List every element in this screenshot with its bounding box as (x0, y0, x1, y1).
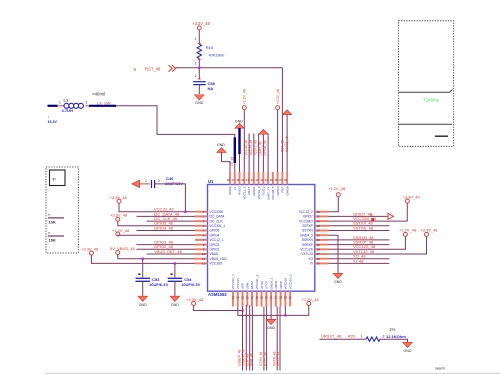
power symbol +3.3V_48 (row12) (81, 247, 99, 256)
net label URXP_48 (vertical) (276, 352, 280, 366)
svg-text:>40mil: >40mil (92, 92, 105, 97)
svg-text:17: 17 (250, 296, 254, 300)
svg-text:10: 10 (202, 252, 206, 256)
label R20 (348, 334, 356, 339)
net label URSXT_48 (321, 334, 342, 339)
svg-text:13: 13 (231, 296, 235, 300)
svg-text:VCC33U_1: VCC33U_1 (231, 274, 235, 290)
U1 left pin names (210, 210, 228, 266)
net label GND_48 (pin43) (249, 140, 253, 156)
wire VCC12S row (329, 236, 406, 249)
net label RST_48 (vertical) (281, 140, 285, 152)
pin number 2 (R20) (383, 335, 385, 339)
wire pin43 stub up (253, 134, 255, 173)
net label GPIO2_48 (154, 244, 174, 249)
svg-text:VBUS_LDO: VBUS_LDO (210, 257, 228, 261)
svg-text:GPIO8: GPIO8 (285, 186, 289, 196)
svg-text:+3.3V_48: +3.3V_48 (81, 247, 99, 252)
wire I2C_DATA row2 (137, 215, 196, 217)
off-page connector RST_48 (169, 65, 176, 71)
waveform trace line 1 (399, 89, 453, 92)
svg-text:SSTXN_48: SSTXN_48 (353, 225, 374, 230)
off-page connector (C40 left) (132, 180, 140, 187)
svg-text:31: 31 (317, 233, 321, 237)
pin number 1 (R20) (361, 335, 363, 339)
svg-text:VXTL33: VXTL33 (301, 252, 313, 256)
svg-text:40: 40 (265, 178, 269, 182)
svg-text:GPIO4: GPIO4 (210, 233, 220, 237)
wire C54 bottom (174, 281, 176, 296)
svg-text:WRST: WRST (250, 280, 254, 289)
net label VCC12_48 (pin44) (244, 140, 248, 156)
power symbol 5V_VBUS_48 (row11) (110, 246, 135, 255)
U1 left pin stubs (195, 212, 208, 264)
svg-text:GND: GND (171, 303, 179, 307)
label C53 (152, 277, 160, 282)
net label VCC33_48 (154, 207, 174, 212)
svg-text:32: 32 (317, 229, 321, 233)
pin number 1 (R10) (195, 62, 197, 66)
svg-text:ASM1053: ASM1053 (208, 292, 227, 297)
net label I2C_CLK_48 (154, 216, 178, 221)
net label GPIO4_48 (154, 225, 174, 230)
net label XI_48 (353, 258, 364, 263)
power symbol +1.2V_48 (top) (242, 89, 246, 110)
wire VCC33IO row (329, 220, 408, 222)
svg-text:VCC33_48: VCC33_48 (285, 136, 289, 152)
net label TEST2_48 (pin42) (254, 140, 258, 155)
svg-text:VCC33IO: VCC33IO (299, 219, 313, 223)
svg-text:LX_48: LX_48 (230, 157, 234, 166)
svg-text:URXN: URXN (274, 281, 278, 290)
net label VCC33I0_48 (353, 216, 377, 221)
U1 top pin numbers 48-37 (227, 178, 288, 182)
resistor stub 10K (upper) (48, 215, 64, 225)
U1 bottom pin stubs (233, 291, 290, 306)
net label RST_48 (145, 67, 161, 72)
net label URXN_48 (vertical) (272, 351, 276, 366)
svg-text:i: i (48, 116, 49, 120)
svg-text:25: 25 (289, 296, 293, 300)
ground symbol (top left of U1) (217, 143, 226, 152)
U1 right pin stubs (315, 212, 329, 264)
svg-text:XO: XO (308, 257, 313, 261)
wire VCC33O row12 (91, 255, 195, 264)
U1 bottom pin numbers 13-25 (231, 296, 292, 300)
wire VCC12 row6 (118, 234, 195, 237)
svg-text:GND: GND (217, 143, 225, 147)
U1 top pin names (228, 186, 289, 200)
net label GPIO5_48 (154, 221, 174, 226)
svg-text:12: 12 (202, 262, 206, 266)
svg-text:14: 14 (236, 296, 240, 300)
svg-text:GPIO3: GPIO3 (210, 243, 220, 247)
wire UTXN vertical (263, 307, 265, 371)
svg-text:26: 26 (317, 257, 321, 261)
IC U1 part number ASM1053 (208, 292, 227, 297)
power symbol +3.3V_48 (right top) (403, 195, 421, 204)
net label SSRXN_48 (353, 235, 374, 240)
svg-text:GND: GND (195, 101, 203, 105)
ground C53 (138, 296, 147, 307)
svg-text:10K: 10K (49, 238, 56, 243)
svg-text:UDM_48: UDM_48 (249, 353, 253, 366)
capacitor C54 (168, 278, 183, 281)
svg-text:30: 30 (317, 238, 321, 242)
svg-text:XI_48: XI_48 (353, 258, 364, 263)
net label I2C_DATA_48 (154, 211, 180, 216)
svg-text:35: 35 (317, 215, 321, 219)
wire +3.3V to pin38 (277, 109, 279, 172)
resistor stub 10K (lower) (48, 233, 64, 243)
inductor L1 (64, 103, 83, 108)
svg-text:8: 8 (134, 67, 137, 72)
svg-text:1: 1 (145, 179, 147, 183)
svg-text:TEST2_48: TEST2_48 (254, 140, 258, 155)
wire GPIO4 row5 (137, 230, 196, 232)
svg-text:28: 28 (317, 248, 321, 252)
wire R10 top (198, 30, 201, 45)
svg-text:URXP_48: URXP_48 (276, 352, 280, 366)
svg-text:VCC12_3: VCC12_3 (242, 186, 246, 199)
svg-text:23: 23 (279, 296, 283, 300)
svg-text:16: 16 (246, 296, 250, 300)
U1 left pin numbers 1-12 (202, 210, 206, 266)
IC U1 body (208, 185, 315, 292)
svg-text:GPIO4_48: GPIO4_48 (154, 225, 174, 230)
wire VXTL33 row (329, 236, 427, 254)
svg-text:41: 41 (260, 178, 264, 182)
wire rail2 (+1.2V) (238, 305, 309, 315)
svg-text:VCC33_48: VCC33_48 (249, 140, 253, 156)
wire rail1 (+3.3V) (194, 305, 243, 310)
svg-text:PVDD: PVDD (238, 186, 242, 195)
wire +1.2V to pin45 (243, 109, 245, 172)
waveform trace line 3 (435, 135, 448, 137)
svg-text:SSTXP: SSTXP (302, 224, 312, 228)
svg-text:VCC33O: VCC33O (210, 262, 223, 266)
svg-text:1: 1 (59, 101, 61, 105)
capacitor C53 polarity mark (138, 273, 140, 275)
power symbol +3.3V_48 (right mid) (420, 228, 438, 237)
svg-text:GPIO6_48: GPIO6_48 (263, 140, 267, 155)
svg-text:2: 2 (86, 101, 88, 105)
svg-text:GND: GND (235, 119, 243, 123)
wire SSRXN row (329, 239, 390, 241)
net label XO_48 (353, 254, 366, 259)
svg-text:36: 36 (317, 210, 321, 214)
net label SSTXP_48 (353, 221, 374, 226)
label L1 (64, 98, 69, 103)
svg-text:GPIO1: GPIO1 (252, 186, 256, 196)
svg-text:VCC12S: VCC12S (300, 248, 312, 252)
wire GND drop (right) (329, 235, 339, 273)
wire C40 pin1 (140, 183, 150, 185)
svg-text:UART_TX: UART_TX (266, 187, 270, 201)
svg-text:R10: R10 (206, 45, 214, 50)
pin number 1 (L1) (59, 101, 61, 105)
net label UTXN_48 (vertical) (259, 352, 263, 366)
svg-text:4.7UH: 4.7UH (62, 108, 73, 113)
svg-text:LX_SW: LX_SW (97, 100, 111, 105)
svg-text:GND: GND (267, 326, 275, 330)
node junction rail1 (241, 309, 244, 312)
wire pin40 stub up (267, 134, 269, 173)
thick GND net segment (238, 128, 240, 154)
svg-text:VCC33V: VCC33V (236, 278, 240, 290)
wire C58 top (198, 68, 201, 80)
svg-text:VCC33A: VCC33A (284, 278, 288, 290)
wire pin44 stub up (248, 134, 250, 173)
pin number 2 (R10) (195, 37, 197, 41)
ground (right of U1) (333, 273, 342, 284)
svg-text:+1.2V_48: +1.2V_48 (328, 186, 346, 191)
U1 bottom pin names (231, 274, 292, 290)
svg-text:47KOhm: 47KOhm (209, 53, 225, 58)
capacitor C58 (193, 82, 206, 85)
wire +3.3V drop (right) (406, 203, 408, 221)
wire pin37 stub up (286, 114, 288, 172)
label C54 (184, 277, 192, 282)
svg-text:25: 25 (317, 262, 321, 266)
svg-text:GNDA_3: GNDA_3 (300, 233, 313, 237)
svg-text:11: 11 (202, 257, 205, 261)
svg-text:1: 1 (195, 62, 197, 66)
svg-text:12.1KOhm: 12.1KOhm (386, 334, 406, 339)
svg-text:VCC12_48: VCC12_48 (244, 140, 248, 156)
wire RST_48 horizontal (176, 67, 283, 69)
svg-text:XI: XI (310, 262, 313, 266)
U1 right pin numbers 36-25 (317, 210, 321, 266)
wire GPIO5 row4 (118, 221, 195, 226)
wire GPIO2 row9 (137, 248, 196, 250)
label C58 (208, 81, 216, 86)
power symbol +3.3V_48 (R10 top) (192, 21, 210, 30)
wire pin41 stub up (262, 134, 264, 172)
wire SSTXN row (329, 230, 390, 232)
svg-text:18: 18 (255, 296, 259, 300)
node junction C54/row12 (174, 262, 177, 265)
svg-text:48: 48 (227, 178, 231, 182)
pin number 2 (C40) (158, 179, 160, 183)
wire pin42 stub up (258, 134, 260, 173)
value 4.7UH (62, 108, 73, 113)
svg-text:+3.3V_48: +3.3V_48 (186, 297, 204, 302)
capacitor C40 (152, 180, 155, 188)
svg-text:19: 19 (260, 296, 264, 300)
svg-text:38: 38 (274, 178, 278, 182)
wire GND to pin48 (222, 152, 231, 172)
svg-text:GPIO7: GPIO7 (303, 215, 313, 219)
svg-text:10UF/6.3V: 10UF/6.3V (181, 282, 200, 287)
svg-text:NA: NA (208, 86, 214, 91)
svg-text:R20: R20 (348, 334, 356, 339)
svg-text:UDM: UDM (245, 282, 249, 289)
svg-text:REXT: REXT (247, 186, 251, 194)
svg-text:+1.2V_48: +1.2V_48 (399, 228, 417, 233)
net label SSTXN_48 (353, 225, 374, 230)
wire R10 bottom (198, 59, 201, 67)
node junction C40/row1 (184, 210, 187, 213)
svg-text:27: 27 (317, 252, 321, 256)
power symbol +3.3V_48 (row1) (110, 195, 128, 203)
wire SSRXP row (329, 244, 390, 246)
value 10UF/6.3V (C53) (149, 282, 168, 287)
svg-text:46: 46 (236, 178, 240, 182)
svg-text:5V_VBUS_48: 5V_VBUS_48 (110, 246, 135, 251)
svg-text:UTXN: UTXN (260, 281, 264, 289)
svg-text:USP: USP (241, 283, 245, 289)
op U1 designator (208, 179, 214, 184)
svg-text:47: 47 (231, 178, 235, 182)
net label VCC12S_48 (353, 244, 376, 249)
svg-text:UART_48: UART_48 (259, 141, 263, 155)
resistor R20 (366, 337, 380, 341)
ground R20 (403, 342, 412, 353)
svg-text:seed h: seed h (435, 367, 445, 371)
net label UTXP_48 (vertical) (263, 352, 267, 366)
wire VBUS_DET row10 (147, 253, 195, 255)
svg-text:VCC1B_5: VCC1B_5 (271, 186, 275, 200)
svg-text:+3.3V_48: +3.3V_48 (110, 212, 128, 217)
svg-text:GNDA_1: GNDA_1 (269, 277, 273, 289)
svg-text:1: 1 (361, 335, 363, 339)
wire C58 bottom (198, 85, 200, 94)
net label USBDP_48 (vertical) (238, 349, 242, 366)
wire URXN vertical (276, 307, 278, 371)
svg-text:24: 24 (284, 296, 288, 300)
value 47KOhm (209, 53, 225, 58)
svg-text:VCC12_2: VCC12_2 (299, 210, 313, 214)
svg-text:33: 33 (317, 224, 321, 228)
U1 top pin stubs (230, 172, 287, 185)
svg-text:TEST2: TEST2 (262, 186, 266, 196)
thick LX net segment (234, 137, 236, 163)
wire pin36 to +1.2V (329, 196, 339, 211)
svg-text:VCC33L_1: VCC33L_1 (210, 224, 226, 228)
svg-text:RST_48: RST_48 (145, 67, 161, 72)
svg-text:36: 36 (284, 178, 288, 182)
power symbol +3.3V_48 (bottom left) (186, 297, 204, 305)
svg-text:2: 2 (158, 179, 160, 183)
wire UDP vertical (249, 305, 251, 371)
pin number 1 (C40) (145, 179, 147, 183)
value NA (C58) (208, 86, 214, 91)
net label SSRXP_48 (353, 240, 374, 245)
svg-text:SSRXN: SSRXN (302, 238, 314, 242)
svg-text:+3.3V_48: +3.3V_48 (403, 195, 421, 200)
wire RST_48 vertical to U1 pin (281, 68, 283, 172)
svg-text:15: 15 (241, 296, 245, 300)
svg-text:2: 2 (195, 37, 197, 41)
note >40mil (92, 92, 105, 97)
waveform trace line 2 (399, 123, 452, 125)
wire C53 bottom (142, 281, 144, 296)
wire I2C_CLK row3 (147, 220, 195, 222)
power symbol +3.3V_48 (top) (276, 89, 280, 110)
ground C54 (170, 296, 179, 307)
dangling-net marker (VCC33IO row) (370, 214, 374, 221)
capacitor C53 (136, 278, 151, 281)
svg-text:I2C_CLK: I2C_CLK (210, 219, 224, 223)
svg-text:GPIO5: GPIO5 (210, 229, 220, 233)
svg-text:2: 2 (383, 335, 385, 339)
wire GPIO7 row (329, 215, 389, 217)
pin number 2 (C58) (195, 74, 197, 78)
net label UART_48 (pin41) (259, 141, 263, 155)
net label LX_SW (97, 100, 111, 105)
svg-text:10UF/6.3V: 10UF/6.3V (149, 282, 168, 287)
svg-text:T1#0ms: T1#0ms (423, 98, 440, 103)
wire UDM vertical (251, 307, 253, 371)
wire thick GND to pin46 (239, 154, 241, 172)
net label LX_48 (vertical) (230, 157, 234, 166)
node junction rail2 (284, 314, 287, 317)
svg-text:21: 21 (269, 296, 273, 300)
sheet bottom border (45, 372, 500, 374)
svg-text:I2C_DATA: I2C_DATA (210, 215, 226, 219)
svg-text:LX: LX (233, 187, 237, 191)
svg-text:+3.3V_48: +3.3V_48 (192, 21, 210, 26)
svg-text:34: 34 (317, 219, 321, 223)
value 12.1KOhm (386, 334, 406, 339)
thick net segment left of L1 (48, 105, 58, 107)
svg-text:29: 29 (317, 243, 321, 247)
wire C40 to VCC33 row (155, 184, 186, 212)
wire VBUS row11 (118, 254, 195, 258)
net label UDM_48 (vertical) (249, 353, 253, 366)
wire L1 pin2 (85, 105, 90, 107)
svg-text:GND2: GND2 (228, 186, 232, 195)
resistor R10 (197, 44, 201, 58)
value 10UF/6.3V (C54) (181, 282, 200, 287)
waveform label T1#0ms (423, 98, 440, 103)
svg-text:45: 45 (241, 178, 245, 182)
wire USB DM vertical (245, 305, 247, 371)
power symbol +1.2V_48 (bottom right) (302, 297, 320, 305)
svg-text:20: 20 (265, 296, 269, 300)
net label GPIO7_48 (353, 211, 373, 216)
svg-text:10K: 10K (49, 219, 56, 224)
net label USBDM_48 (vertical) (242, 349, 246, 366)
svg-text:RST_48: RST_48 (281, 140, 285, 152)
svg-text:UTXP_48: UTXP_48 (263, 352, 267, 366)
wire LX to U1 (116, 106, 235, 172)
voltage note V6.3V (48, 116, 58, 125)
svg-text:GND: GND (404, 349, 412, 353)
capacitor C54 polarity mark (170, 273, 172, 275)
net label VXTL33_48 (353, 249, 375, 254)
svg-text:GPIO2: GPIO2 (210, 248, 220, 252)
wire pin24 to rail2 (284, 307, 286, 316)
svg-text:22: 22 (274, 296, 278, 300)
wire SSTXP row (329, 225, 390, 227)
net label GPIO6_48 (pin40) (263, 140, 267, 155)
wire VCC33 row1 (119, 203, 195, 212)
connector block ip (50, 170, 66, 186)
net label VCC33_48 (vertical right) (285, 136, 289, 152)
value 10UF/16V (165, 181, 183, 186)
svg-text:VBUS: VBUS (210, 252, 219, 256)
svg-text:L1: L1 (64, 98, 69, 103)
svg-text:43: 43 (250, 178, 254, 182)
net label UDP_48 (vertical) (245, 354, 249, 366)
label C40 (166, 176, 174, 181)
svg-text:SSTXN: SSTXN (302, 229, 313, 233)
svg-text:URSXT_48: URSXT_48 (321, 334, 342, 339)
svg-text:2: 2 (195, 74, 197, 78)
tolerance 1% (389, 327, 395, 332)
